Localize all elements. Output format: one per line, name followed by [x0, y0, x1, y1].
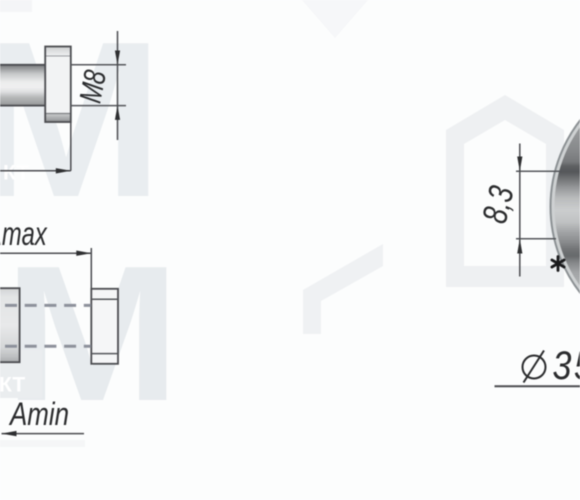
dimension M8: extension lines: [71, 65, 126, 106]
disc (bottom view, cut at right): [551, 67, 580, 347]
watermark partial house (mid-bottom): [303, 244, 383, 334]
watermark patch behind KT2: [0, 350, 42, 398]
cap height dimension (view 1): [0, 122, 71, 174]
dimension M8: dimension line with arrows: [115, 31, 120, 140]
svg-text:35: 35: [553, 342, 580, 387]
label diameter 35: [523, 342, 580, 387]
rod (threaded stud, side view): [0, 65, 46, 106]
star marker: [552, 257, 564, 271]
hidden rod dashed line (bottom): [5, 345, 91, 348]
watermark faint smudge (bottom-left): [0, 440, 85, 447]
watermark house icon (right): [446, 95, 564, 287]
body block (view 2, cut at left): [0, 288, 20, 362]
svg-text:КТ: КТ: [0, 374, 25, 397]
dimension 8,3: dimension line with arrows: [517, 144, 522, 277]
cap flange (view 2, retracted): [91, 289, 118, 364]
watermark top band: [0, 0, 32, 12]
svg-text:КТ: КТ: [3, 162, 29, 185]
Amin dimension line with arrow: [2, 431, 85, 436]
svg-text:Amin: Amin: [8, 398, 69, 433]
Amax dimension line with arrow: [0, 248, 91, 364]
underline of diameter label: [495, 385, 580, 387]
hidden rod dashed line (top): [5, 304, 91, 307]
svg-text:М: М: [0, 0, 164, 244]
dimension 8,3: extension lines: [516, 171, 562, 238]
watermark faint roof tip (top): [302, 0, 368, 38]
svg-text:Amax: Amax: [0, 216, 48, 253]
cap flange (side view): [45, 47, 71, 123]
